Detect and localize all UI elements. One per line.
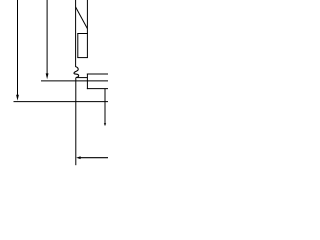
dimension line bottom with left arrow	[80, 157, 109, 159]
break squiggle	[74, 67, 79, 78]
extension line right	[104, 89, 106, 124]
part right edge upper	[86, 0, 88, 58]
groove left edge	[77, 34, 79, 58]
part left edge upper	[75, 0, 77, 67]
groove top	[77, 33, 88, 35]
block left edge	[86, 74, 88, 90]
block bottom edge	[87, 88, 108, 90]
edge line bottom long	[14, 101, 109, 103]
arrowhead left bottom	[76, 156, 80, 159]
edge line mid	[41, 80, 108, 82]
chamfer diagonal	[76, 7, 88, 29]
dimension extension line left	[17, 0, 19, 95]
arrowhead down right	[104, 123, 106, 126]
block top edge	[87, 73, 108, 75]
short edge line to block	[77, 77, 87, 79]
arrowhead down left	[16, 95, 19, 101]
dimension extension line mid	[46, 0, 48, 74]
part left edge lower	[75, 78, 77, 165]
arrowhead down mid	[46, 73, 49, 79]
background	[0, 0, 108, 175]
groove bottom	[77, 57, 88, 59]
